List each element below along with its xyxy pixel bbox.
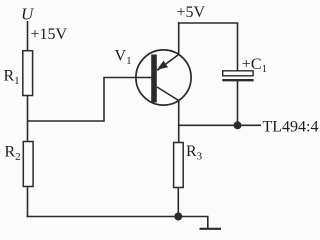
- capacitor C1 top plate: [223, 71, 253, 76]
- svg-text:R1: R1: [4, 68, 20, 87]
- wire capacitor to node: [237, 80, 239, 125]
- wire emitter to +5V rail: [178, 22, 180, 54]
- resistor R2: [23, 142, 33, 187]
- junction dot bottom node: [174, 213, 182, 221]
- svg-text:R3: R3: [186, 143, 203, 162]
- capacitor C1 bottom plate: [222, 79, 253, 81]
- wire R1 to R2: [27, 96, 29, 142]
- wire base network: junction to corner: [28, 78, 152, 122]
- svg-text:V1: V1: [115, 48, 132, 67]
- wire top rail: [178, 22, 238, 24]
- svg-text:+5V: +5V: [177, 4, 206, 21]
- wire node to TL494: [178, 124, 261, 126]
- wire U to R1: [27, 21, 29, 51]
- svg-text:+15V: +15V: [31, 26, 68, 43]
- transistor V1 emitter arrow: [157, 61, 168, 70]
- transistor V1 base bar: [151, 55, 157, 103]
- wire bottom rail: [27, 216, 209, 218]
- junction dot TL494 node: [234, 121, 242, 129]
- svg-text:U: U: [21, 5, 35, 24]
- transistor V1 emitter line: [157, 55, 179, 71]
- svg-text:TL494:4: TL494:4: [263, 119, 319, 136]
- transistor V1 circle: [136, 50, 191, 105]
- wire R2 to bottom rail: [27, 187, 29, 218]
- wire R3 to bottom rail: [177, 188, 179, 217]
- transistor V1 collector line: [157, 87, 179, 101]
- wire top rail to capacitor: [237, 23, 239, 71]
- resistor R1: [23, 51, 33, 96]
- wire collector rail: [178, 101, 180, 143]
- ground: [207, 217, 209, 229]
- svg-text:R2: R2: [5, 144, 21, 163]
- svg-text:+C1: +C1: [242, 56, 267, 75]
- resistor R3: [174, 143, 184, 188]
